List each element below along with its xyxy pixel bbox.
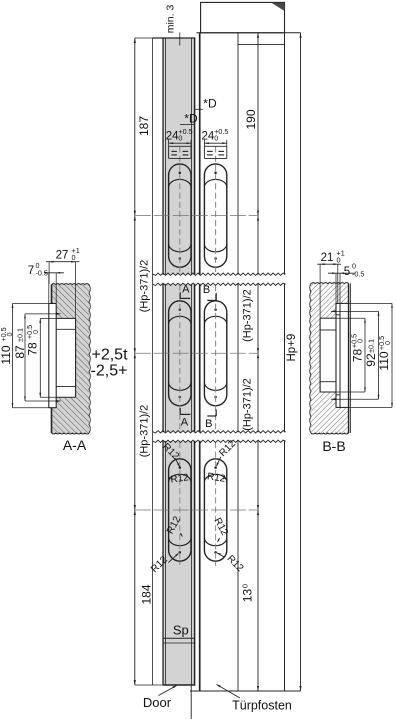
svg-text:190: 190 xyxy=(244,109,258,129)
svg-text:110: 110 xyxy=(0,345,13,364)
svg-text:Sp: Sp xyxy=(173,623,189,638)
svg-text:78: 78 xyxy=(25,342,39,356)
svg-text:B-B: B-B xyxy=(322,438,345,454)
svg-text:±0.1: ±0.1 xyxy=(15,328,24,342)
svg-text:+2,5t: +2,5t xyxy=(91,347,128,364)
svg-text:0: 0 xyxy=(31,330,40,334)
svg-text:A: A xyxy=(182,284,190,296)
svg-text:92: 92 xyxy=(364,353,378,367)
svg-text:27: 27 xyxy=(56,250,69,262)
svg-text:Türpfosten: Türpfosten xyxy=(232,699,292,713)
svg-text:(Hp-371)/2: (Hp-371)/2 xyxy=(242,289,254,342)
svg-text:24: 24 xyxy=(166,131,179,143)
svg-text:±0.1: ±0.1 xyxy=(367,339,376,353)
svg-text:0: 0 xyxy=(72,253,76,262)
svg-text:7: 7 xyxy=(28,265,34,277)
svg-text:*D: *D xyxy=(203,97,217,111)
svg-text:(Hp-371)/2: (Hp-371)/2 xyxy=(242,378,254,431)
svg-text:B: B xyxy=(203,284,210,296)
svg-text:0: 0 xyxy=(5,333,14,337)
svg-text:A-A: A-A xyxy=(63,437,87,453)
svg-text:78: 78 xyxy=(350,349,364,363)
svg-text:min. 3: min. 3 xyxy=(165,5,177,34)
svg-text:-0.5: -0.5 xyxy=(352,270,364,279)
svg-text:0: 0 xyxy=(214,134,218,143)
svg-text:5: 5 xyxy=(344,266,350,278)
svg-text:*D: *D xyxy=(184,111,198,125)
svg-text:(Hp-371)/2: (Hp-371)/2 xyxy=(139,405,151,458)
svg-text:110: 110 xyxy=(377,351,391,370)
svg-text:-0.5: -0.5 xyxy=(36,269,48,278)
svg-text:0: 0 xyxy=(356,339,365,343)
svg-text:21: 21 xyxy=(321,252,334,264)
svg-text:0: 0 xyxy=(178,134,182,143)
svg-text:-2,5+: -2,5+ xyxy=(91,363,128,380)
svg-text:B: B xyxy=(205,418,212,430)
svg-text:0: 0 xyxy=(241,584,250,588)
svg-text:0: 0 xyxy=(383,341,392,345)
svg-text:Hp+9: Hp+9 xyxy=(286,334,298,362)
svg-text:0: 0 xyxy=(337,256,341,265)
svg-text:(Hp-371)/2: (Hp-371)/2 xyxy=(139,260,151,313)
svg-text:24: 24 xyxy=(202,131,215,143)
svg-text:187: 187 xyxy=(137,116,151,136)
svg-text:Door: Door xyxy=(143,695,172,710)
svg-text:A: A xyxy=(181,417,189,429)
svg-text:13: 13 xyxy=(241,589,255,603)
svg-text:184: 184 xyxy=(140,584,154,604)
